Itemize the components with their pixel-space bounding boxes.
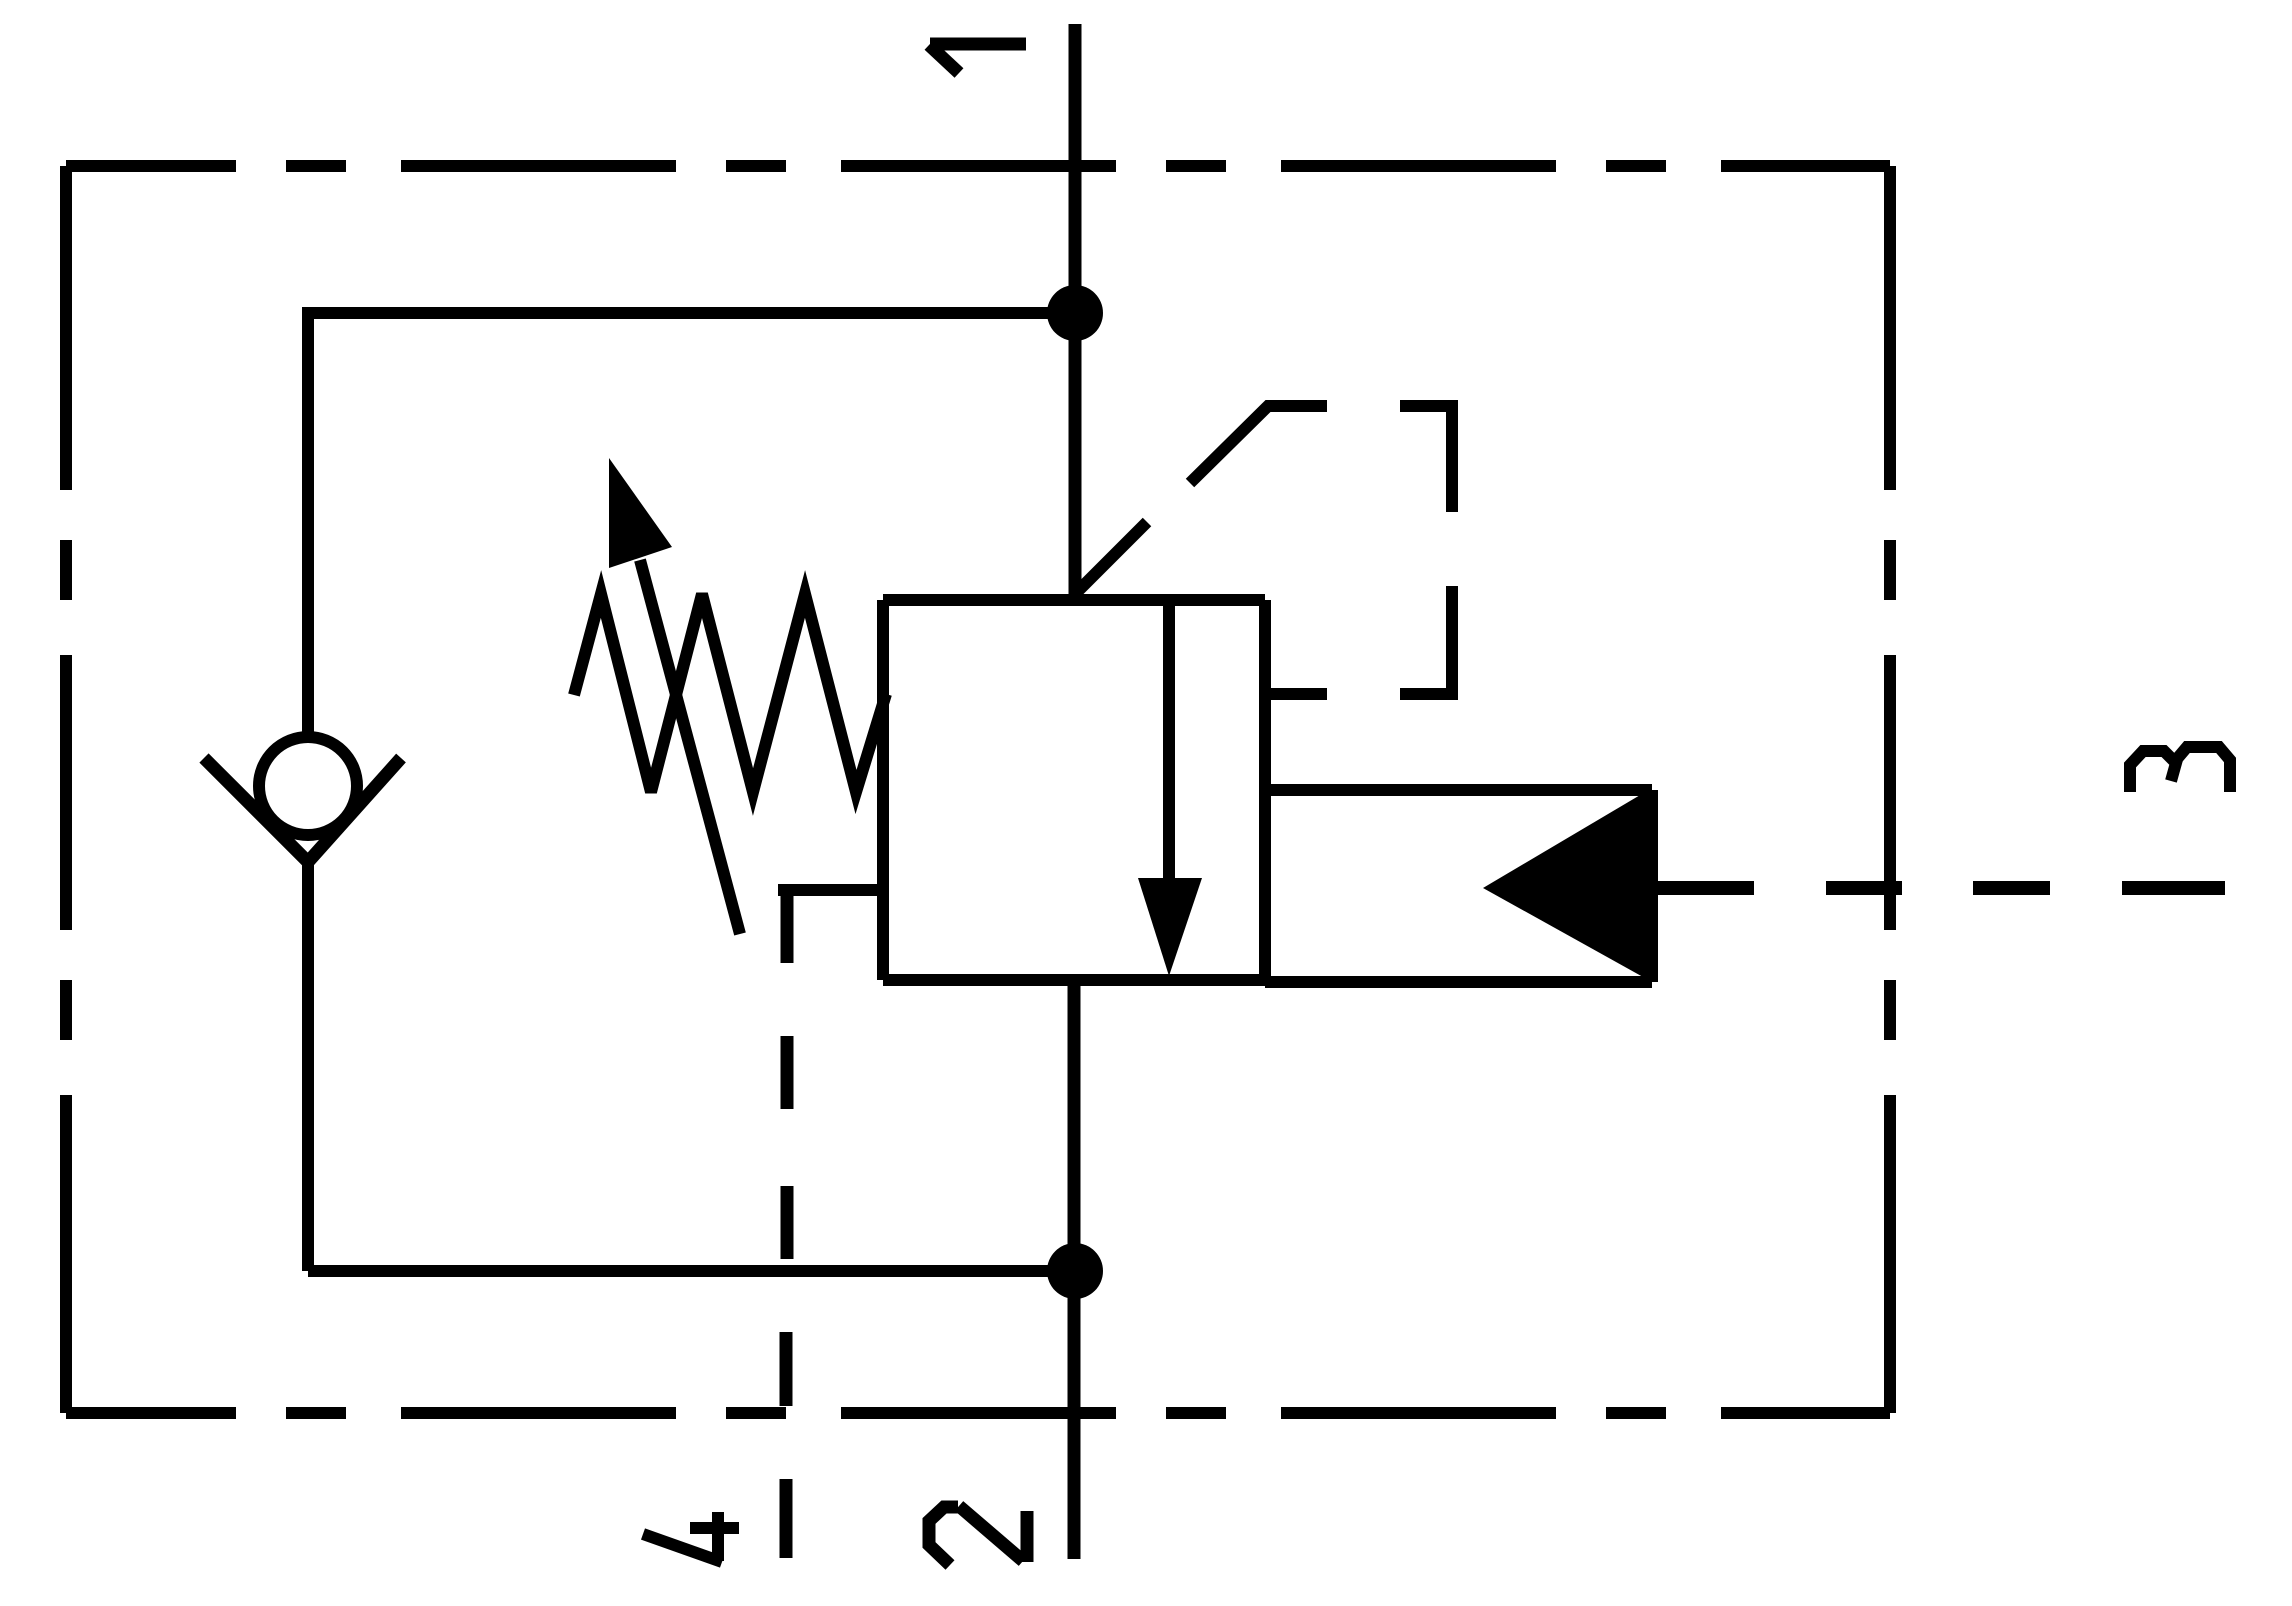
pilot actuator box right edge	[1646, 790, 1658, 982]
check valve CV1 seat	[204, 758, 401, 862]
label 3 (rotated stick digit)	[2130, 747, 2230, 792]
label 2 (rotated stick digit)	[929, 1506, 1027, 1565]
pilot actuator triangle (filled)	[1483, 788, 1652, 982]
port 3 dashed line seg 2	[1826, 881, 1902, 895]
port 3 dashed line seg 1	[1652, 881, 1754, 895]
wire node B (junction port2 / check valve branch)	[1047, 1243, 1103, 1299]
pilot actuator box top edge	[1265, 784, 1652, 796]
pilot dashed line seg 1 (diagonal from valve top)	[1075, 522, 1147, 594]
valve V1 flow path arrow shaft (divider)	[1163, 600, 1175, 900]
pilot dashed line seg 2 (diagonal to top corner)	[1190, 406, 1327, 483]
valve V1 body right edge	[1259, 600, 1271, 983]
pilot dashed line seg 4 (bottom right corner)	[1400, 586, 1452, 694]
valve V1 flow path arrowhead	[1138, 878, 1202, 976]
valve V1 body left edge	[877, 600, 889, 980]
port 4 dashed line seg 3	[781, 1186, 794, 1259]
wire bottom (check valve to node B)	[308, 1265, 1075, 1277]
pilot dashed line seg 3 (top right corner)	[1400, 406, 1452, 512]
port 1 line	[1069, 24, 1082, 600]
pilot stub to port 4 (solid)	[778, 884, 886, 896]
label 4 (rotated stick digit)	[643, 1512, 739, 1562]
port 4 dashed line seg 2	[781, 1036, 794, 1109]
enclosure border right (dash-dot)	[1884, 166, 1896, 1413]
adjustment arrow shaft	[640, 560, 740, 934]
port 4 dashed line seg 4	[780, 1332, 793, 1406]
port 3 dashed line seg 3	[1973, 881, 2050, 895]
adjustment arrowhead	[609, 458, 672, 568]
enclosure border left (dash-dot)	[60, 166, 72, 1413]
spring S1	[574, 594, 886, 792]
valve V1 body top edge	[883, 594, 1265, 606]
check valve CV1 ball	[259, 737, 357, 835]
port 3 dashed line seg 4	[2122, 881, 2225, 895]
port 2 line	[1068, 980, 1081, 1559]
label 1 (rotated stick digit)	[929, 44, 1026, 73]
port 4 dashed line seg 1	[781, 890, 794, 963]
enclosure border bottom (dash-dot)	[66, 1407, 1890, 1419]
port 4 dashed line seg 5	[780, 1479, 793, 1558]
pilot dashed line seg 5 (to valve right edge)	[1265, 688, 1327, 700]
pilot actuator box bottom edge	[1265, 976, 1652, 988]
wire top (node A to check valve)	[308, 307, 1075, 319]
enclosure border top (dash-dot)	[66, 160, 1890, 172]
wire check valve lower	[302, 858, 314, 1271]
valve V1 body bottom edge	[883, 974, 1265, 986]
wire check valve upper	[302, 307, 314, 740]
wire node A (junction port1 / check valve branch)	[1047, 285, 1103, 341]
